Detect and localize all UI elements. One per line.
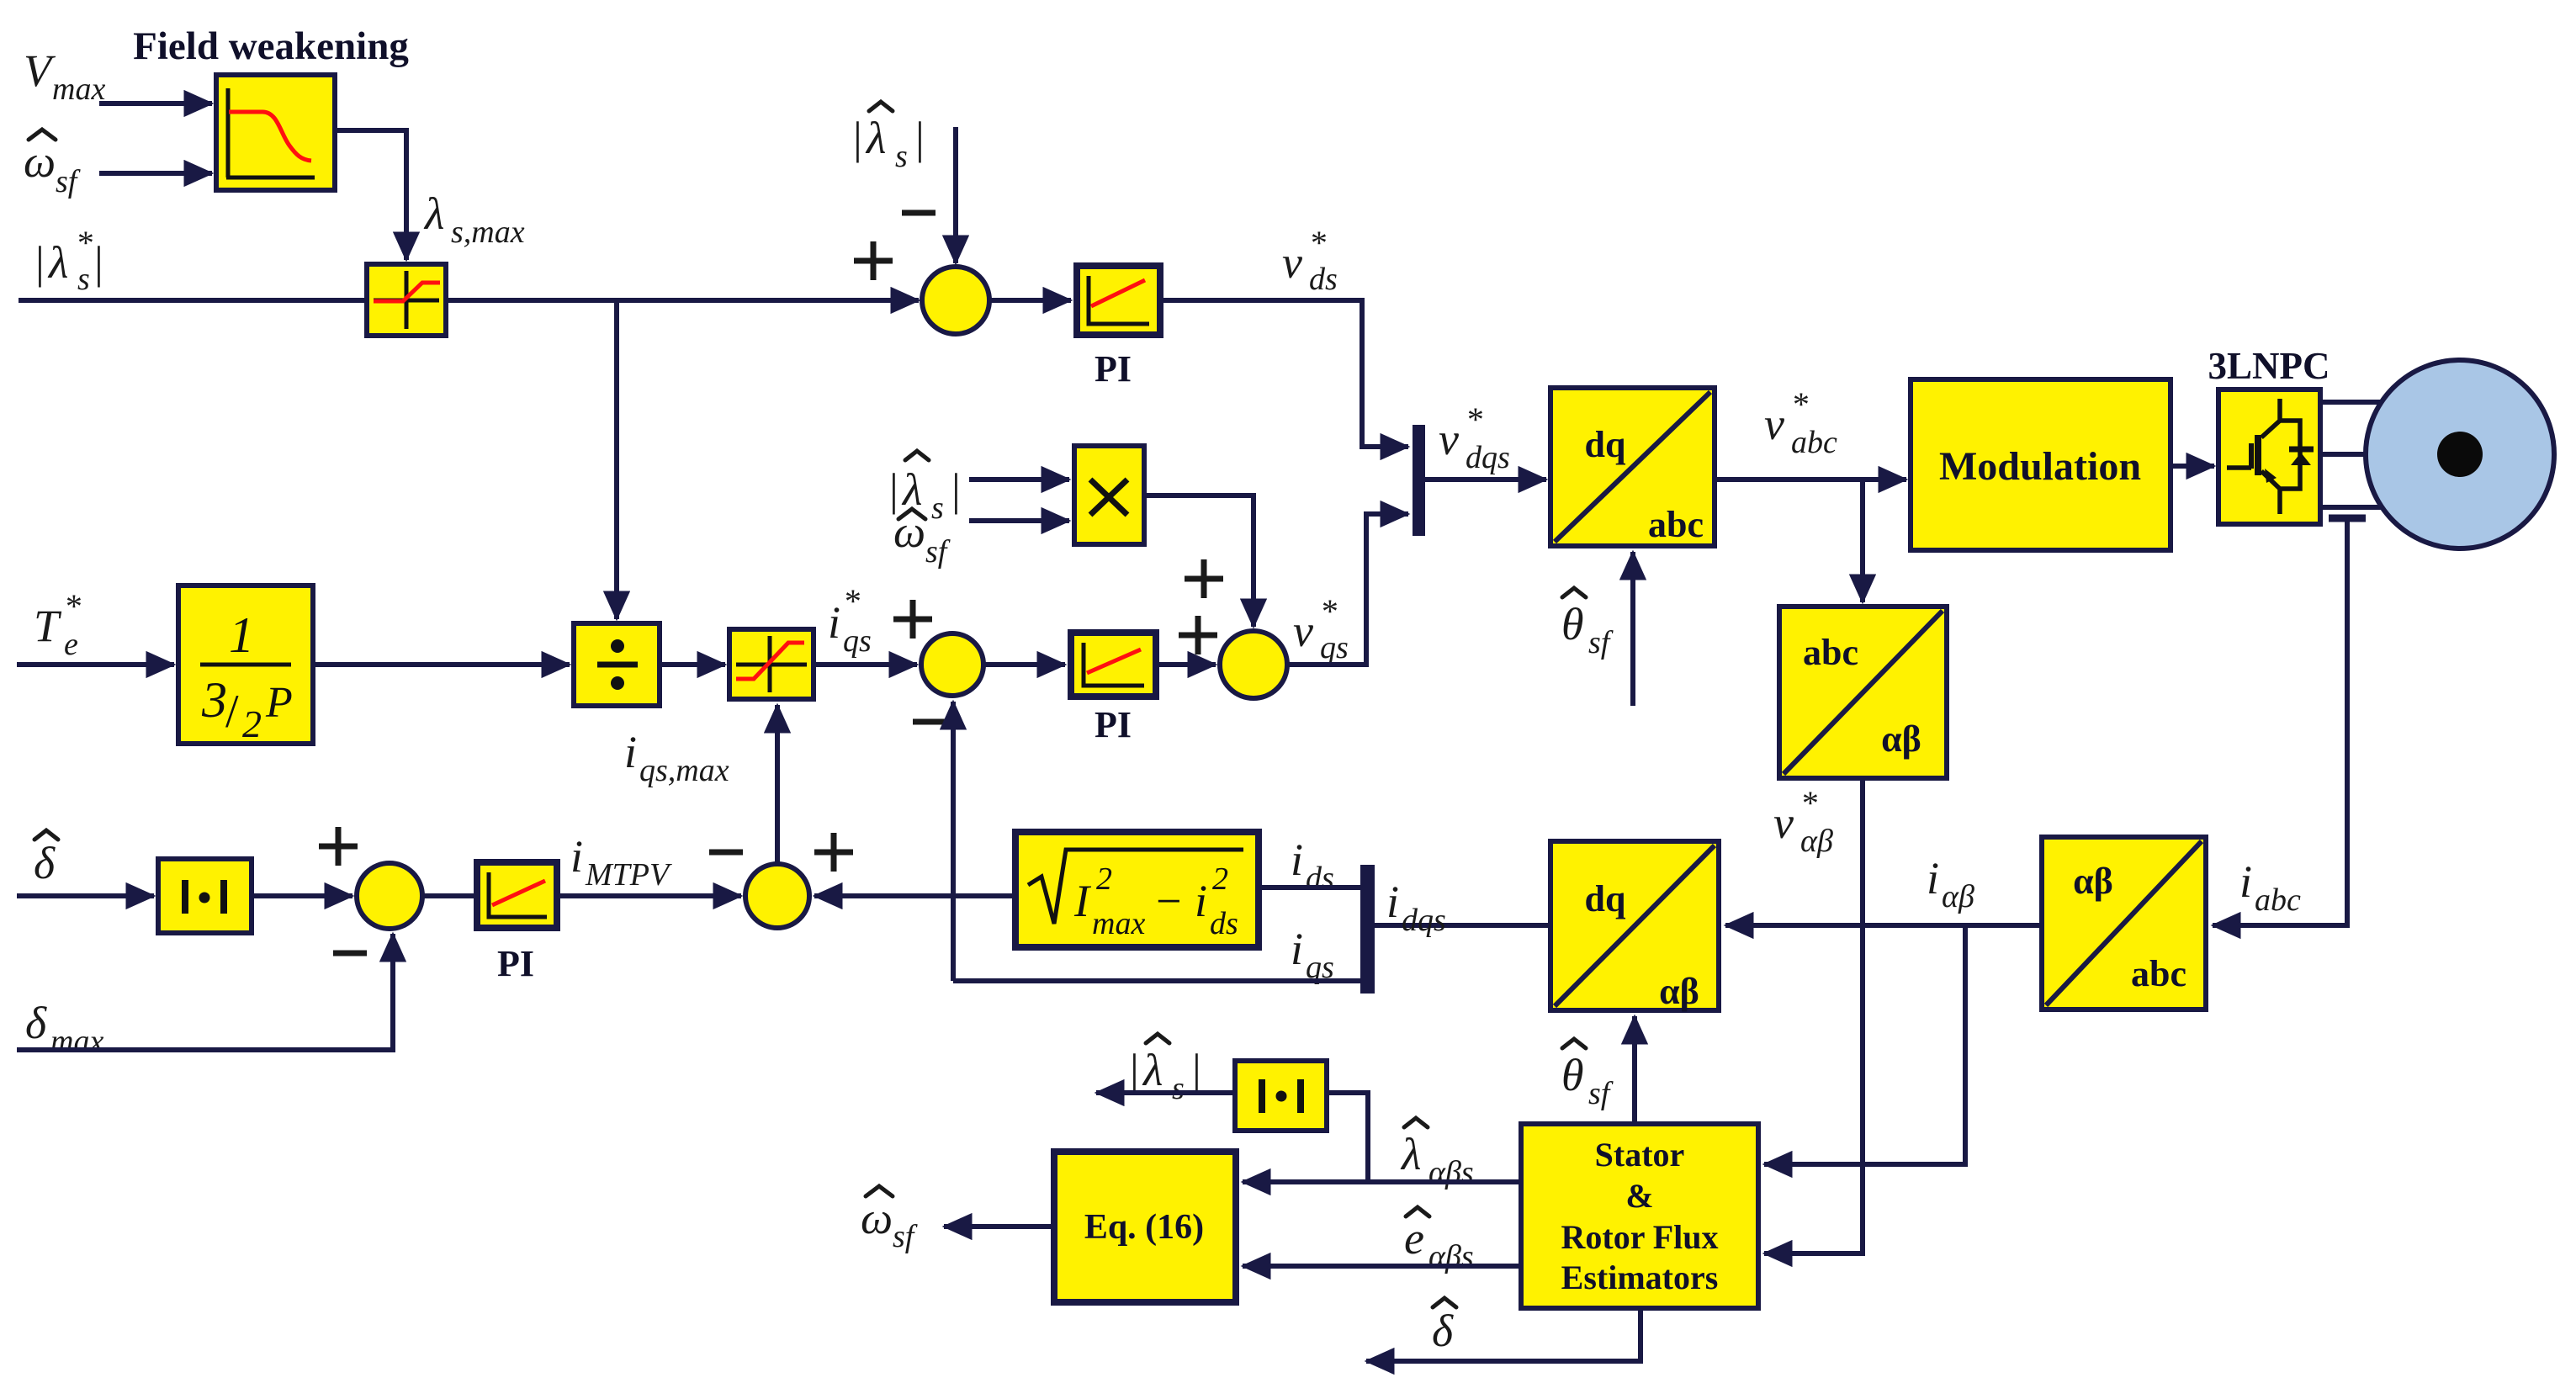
sign: plus at sum 2: [893, 600, 932, 639]
wire: lambda into multiplier: [969, 477, 1069, 482]
label omega_sf hat (top left): [24, 136, 56, 187]
svg-text:max: max: [50, 1024, 103, 1059]
wire: delta input arrow: [17, 893, 154, 898]
svg-text:θ: θ: [1561, 1050, 1584, 1100]
wire: lambda_alphabeta from estimator to Eq16: [1243, 1179, 1521, 1184]
svg-text:i: i: [2239, 856, 2252, 907]
svg-text:P: P: [265, 679, 293, 727]
svg-text:Stator: Stator: [1595, 1136, 1685, 1174]
wire: gain output to divider: [313, 662, 570, 667]
wire: flux vector into abs block: [1327, 1093, 1368, 1179]
svg-text:&: &: [1625, 1177, 1653, 1215]
label v*_dqs: [1439, 400, 1510, 475]
wire: iabc feedback down: [2213, 522, 2347, 925]
svg-text:I: I: [1073, 876, 1092, 926]
block: field weakening lookup: [216, 75, 335, 190]
svg-text:abc: abc: [2255, 882, 2301, 918]
wire: v_alphabeta down to estimator: [1764, 778, 1863, 1253]
wire: dq/abc to Modulation: [1715, 477, 1906, 482]
wire: omega into multiplier: [969, 518, 1069, 523]
wire: dq current output to current bus: [1375, 923, 1550, 928]
svg-text:v: v: [1293, 606, 1313, 656]
wire: theta_sf arrow into dq current transform: [1632, 1016, 1637, 1124]
wire: flux reference line into saturation 1: [19, 298, 367, 303]
svg-text:αβs: αβs: [1428, 1155, 1474, 1190]
svg-text:*: *: [1320, 592, 1337, 630]
label omega_sf hat output: [861, 1193, 893, 1243]
node: dq voltage bus bar: [1413, 425, 1425, 536]
svg-text:λ: λ: [1142, 1045, 1163, 1095]
label i_abc: [2239, 856, 2301, 918]
svg-text:ds: ds: [1210, 906, 1238, 941]
block: absolute value (delta): [158, 859, 252, 933]
wire: i_ds from bus into sqrt block: [1259, 885, 1360, 890]
svg-text:*: *: [1309, 224, 1326, 262]
svg-text:|: |: [1130, 1045, 1139, 1095]
svg-text:s: s: [895, 139, 908, 174]
svg-text:ds: ds: [1306, 861, 1334, 896]
block: PI controller C (MTPV): [477, 862, 557, 928]
svg-text:3LNPC: 3LNPC: [2208, 345, 2330, 387]
label v*_alphabeta: [1773, 784, 1833, 859]
block: PI controller A (flux): [1077, 266, 1160, 335]
sign: minus below MTPV sum 1: [333, 951, 367, 956]
svg-text:i: i: [1927, 853, 1939, 903]
svg-text:PI: PI: [1095, 348, 1132, 389]
wire: flux feedback down into sum 1: [953, 127, 958, 263]
svg-text:*: *: [76, 224, 93, 262]
svg-text:/: /: [225, 686, 239, 738]
label i*_qs: [828, 582, 872, 659]
label |lambda_s hat| (multiplier input): [889, 464, 922, 515]
label theta_sf hat (dq/abc angle): [1561, 599, 1584, 649]
wire: i_alphabeta to dq transform: [1725, 923, 2042, 928]
svg-text:i: i: [570, 831, 583, 882]
block: dq to alphabeta transform (current): [1550, 841, 1719, 1012]
wire: iqs,max arrow up into saturation 2: [775, 705, 780, 864]
svg-text:dqs: dqs: [1402, 903, 1446, 938]
label |lambda_s hat| (estimated flux magnitude): [1130, 1045, 1163, 1095]
wire: theta_sf arrow into dq/abc: [1630, 552, 1635, 706]
svg-text:sf: sf: [1588, 1076, 1614, 1111]
svg-text:T: T: [34, 601, 62, 651]
label omega_sf hat (multiplier input): [893, 506, 925, 557]
label theta_sf hat (dq current angle): [1561, 1050, 1584, 1100]
block: sqrt(Imax^2 - ids^2): [1015, 832, 1259, 947]
label Vmax: [24, 45, 105, 107]
wire: omega_sf output arrow: [944, 1224, 1054, 1229]
label i_qs,max: [624, 727, 729, 788]
svg-text:dqs: dqs: [1466, 440, 1510, 475]
svg-text:i: i: [1291, 835, 1303, 885]
svg-text:Modulation: Modulation: [1939, 444, 2141, 489]
wire: e_alphabeta from estimator to Eq16: [1243, 1264, 1521, 1269]
wire: phase line b: [2320, 452, 2394, 457]
svg-text:|: |: [1192, 1045, 1201, 1095]
block: divider: [574, 623, 660, 706]
label i_qs: [1291, 924, 1334, 985]
svg-text:i: i: [828, 597, 840, 648]
label i_alphabeta: [1927, 853, 1974, 914]
block: 1/(3/2 P) gain: [178, 586, 313, 745]
wire: abs to MTPV sum 1: [252, 893, 352, 898]
svg-text:Estimators: Estimators: [1561, 1258, 1719, 1296]
wire: saturation 2 to sum 2: [814, 662, 917, 667]
svg-text:s: s: [931, 490, 944, 526]
svg-text:|: |: [853, 113, 862, 163]
wire: branch down to abc/alphabeta: [1860, 480, 1865, 602]
svg-text:ω: ω: [24, 136, 56, 187]
wire: sum 2 to PI B: [983, 662, 1065, 667]
sign: plus left of sum 3: [1179, 616, 1217, 654]
svg-text:sf: sf: [893, 1219, 918, 1254]
label |lambda_s hat| (feedback at sum1): [853, 113, 886, 163]
wire: iqs feedback up into sum 2: [951, 702, 956, 981]
svg-text:|: |: [35, 237, 45, 288]
label lambda_s,max: [423, 188, 525, 250]
block: stator and rotor flux estimators: [1521, 1124, 1758, 1308]
label delta_max: [25, 998, 103, 1059]
svg-text:v: v: [1439, 414, 1459, 464]
wire: vqs to dq bus: [1287, 514, 1408, 665]
svg-text:λ: λ: [865, 113, 886, 163]
wire: i_alphabeta branch to estimator: [1764, 925, 1965, 1164]
block: absolute value (flux): [1235, 1061, 1327, 1131]
svg-text:abc: abc: [2131, 953, 2186, 994]
wire: multiplier output to sum 3: [1144, 495, 1254, 627]
svg-text:abc: abc: [1803, 632, 1858, 673]
wire: omega_sf input arrow: [99, 171, 212, 176]
node: branch to divider: [614, 300, 619, 619]
svg-text:|: |: [951, 464, 961, 515]
label |lambda_s*| reference: [35, 224, 103, 297]
svg-text:v: v: [1764, 399, 1784, 449]
sign: minus at sum 1: [902, 210, 936, 216]
block: PI controller B (current): [1071, 633, 1156, 697]
svg-text:*: *: [1466, 400, 1482, 438]
sign: plus at MTPV sum 1: [319, 827, 358, 866]
svg-text:abc: abc: [1648, 504, 1704, 545]
wire: Modulation to 3LNPC: [2171, 464, 2214, 469]
svg-text:MTPV: MTPV: [585, 857, 672, 893]
svg-text:qs: qs: [843, 623, 872, 659]
wire: divider to saturation 2: [660, 662, 725, 667]
block: saturation 1: [367, 264, 446, 336]
label e_alphabeta_s hat: [1404, 1213, 1424, 1264]
svg-text:i: i: [1195, 876, 1207, 926]
svg-text:1: 1: [229, 607, 254, 663]
wire: Vmax input arrow: [99, 101, 212, 106]
label T*_e torque reference: [34, 587, 81, 662]
block: dq to abc transform: [1550, 388, 1715, 546]
label v*_ds: [1282, 224, 1338, 297]
svg-text:abc: abc: [1791, 425, 1837, 460]
wire: flux magnitude output arrow: [1096, 1090, 1235, 1095]
label v*_abc: [1764, 385, 1837, 460]
wire: phase line c: [2320, 505, 2394, 510]
svg-text:3: 3: [201, 672, 227, 728]
svg-text:λ: λ: [47, 237, 68, 288]
svg-text:2: 2: [242, 702, 262, 745]
svg-text:sf: sf: [56, 164, 81, 199]
svg-text:qs,max: qs,max: [639, 753, 729, 788]
wire: i_qs from bus back to sum 2: [953, 978, 1360, 983]
svg-text:δ: δ: [25, 998, 47, 1048]
block: 3LNPC inverter with IGBT symbol: [2218, 389, 2320, 524]
svg-text:|: |: [915, 113, 925, 163]
sign: plus above sum 3 (vertical input): [1185, 559, 1223, 598]
svg-text:i: i: [1386, 877, 1399, 927]
svg-text:αβ: αβ: [1881, 718, 1921, 760]
svg-text:sf: sf: [925, 534, 951, 570]
label i_dqs: [1386, 877, 1446, 938]
block: Modulation: [1911, 379, 2171, 550]
svg-text:αβ: αβ: [1800, 824, 1833, 859]
svg-text:δ: δ: [34, 838, 56, 888]
svg-text:αβ: αβ: [1942, 879, 1974, 914]
svg-text:PI: PI: [1095, 704, 1132, 745]
svg-text:|: |: [94, 237, 103, 288]
svg-text:δ: δ: [1432, 1306, 1454, 1356]
svg-text:dq: dq: [1585, 878, 1626, 919]
block: alphabeta to abc transform (current): [2042, 837, 2206, 1009]
label i_ds: [1291, 835, 1334, 896]
sum junction 1 (flux error): [922, 267, 989, 334]
svg-text:Eq. (16): Eq. (16): [1084, 1208, 1204, 1247]
sign: minus at MTPV sum 2: [709, 850, 743, 856]
svg-text:dq: dq: [1585, 424, 1626, 465]
svg-text:e: e: [64, 627, 78, 662]
sign: minus at sum 2: [913, 719, 946, 725]
svg-text:s: s: [77, 262, 90, 297]
block: abc to alphabeta transform: [1779, 607, 1947, 778]
wire: bus to dq/abc transform: [1425, 477, 1546, 482]
svg-text:sf: sf: [1588, 625, 1614, 660]
sign: plus at sum 1: [854, 241, 893, 280]
svg-text:i: i: [624, 727, 637, 777]
svg-text:max: max: [1092, 906, 1145, 941]
svg-text:s,max: s,max: [451, 215, 525, 250]
svg-text:s: s: [1172, 1071, 1185, 1106]
node: current sensor tap: [2329, 515, 2366, 522]
svg-text:θ: θ: [1561, 599, 1584, 649]
wire: sum1 to PI A: [989, 298, 1071, 303]
svg-text:qs: qs: [1320, 630, 1349, 665]
svg-text:e: e: [1404, 1213, 1424, 1264]
wire: saturation 1 output to sum 1: [446, 298, 919, 303]
svg-text:2: 2: [1096, 861, 1112, 897]
label delta hat output: [1432, 1306, 1454, 1356]
wire: MTPV sum1 to PI C: [422, 893, 477, 898]
wire: iqs,max output of sqrt to MTPV sum: [814, 893, 1015, 898]
svg-text:*: *: [1791, 385, 1808, 423]
svg-text:−: −: [1156, 876, 1181, 926]
svg-text:*: *: [843, 582, 860, 620]
block: saturation 2 (iqs limit): [729, 629, 814, 699]
svg-text:ω: ω: [861, 1193, 893, 1243]
svg-text:λ: λ: [423, 188, 444, 239]
svg-text:λ: λ: [1400, 1129, 1421, 1179]
motor (PMSM): [2366, 360, 2554, 548]
wire: phase line a: [2320, 400, 2394, 405]
node: dq current bus bar: [1360, 865, 1375, 994]
label delta hat input: [34, 838, 56, 888]
svg-text:Field weakening: Field weakening: [133, 24, 409, 68]
label lambda_alphabeta_s hat: [1400, 1129, 1421, 1179]
wire: delta estimate output arrow: [1366, 1308, 1640, 1361]
label v*_qs: [1293, 592, 1349, 665]
sum junction 2 (iqs error): [921, 633, 983, 696]
sum junction M2 (iqs,max): [745, 864, 809, 928]
svg-text:αβs: αβs: [1428, 1239, 1474, 1274]
svg-text:ds: ds: [1309, 262, 1338, 297]
svg-text:i: i: [1291, 924, 1303, 974]
sum junction M1 (delta error): [357, 863, 422, 929]
label i_MTPV: [570, 831, 672, 893]
svg-text:v: v: [1773, 797, 1794, 848]
svg-text:max: max: [52, 72, 105, 107]
svg-text:αβ: αβ: [1659, 971, 1699, 1012]
wire: field weakening output to saturation: [335, 130, 406, 260]
svg-text:αβ: αβ: [2073, 861, 2113, 902]
svg-text:*: *: [1800, 784, 1817, 822]
wire: i_MTPV to MTPV sum 2: [557, 893, 741, 898]
block: Eq. (16) speed computation: [1054, 1152, 1236, 1302]
sign: plus at MTPV sum 2: [814, 833, 853, 872]
block: multiplier: [1074, 446, 1144, 544]
svg-text:PI: PI: [497, 943, 534, 984]
wire: Te input arrow: [17, 662, 174, 667]
svg-text:Rotor Flux: Rotor Flux: [1561, 1218, 1718, 1256]
wire: vds to dq bus: [1160, 300, 1408, 447]
svg-text:*: *: [64, 587, 81, 625]
wire: delta_max into MTPV sum 1: [17, 934, 393, 1050]
svg-text:2: 2: [1212, 861, 1228, 897]
wire: PI B to sum 3: [1156, 662, 1216, 667]
svg-text:v: v: [1282, 237, 1302, 288]
sum junction 3 (vqs): [1220, 631, 1287, 698]
